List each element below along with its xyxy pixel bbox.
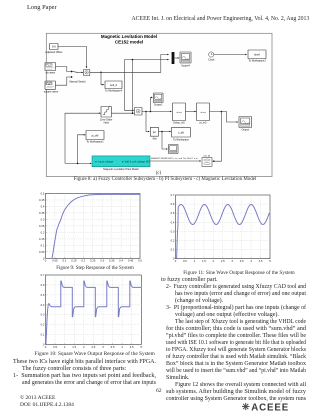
wire: branch down to Scope5 bbox=[162, 132, 168, 150]
gateway block 2 bbox=[197, 103, 210, 121]
ACEEE logo bbox=[241, 401, 295, 413]
wire: clock to To Workspace3 bbox=[214, 54, 247, 56]
svg-text:Hold: Hold bbox=[104, 121, 110, 124]
sum block sum2 bbox=[135, 108, 143, 116]
svg-text:3: 3 bbox=[102, 345, 104, 349]
svg-text:0.3: 0.3 bbox=[41, 217, 45, 221]
svg-text:1.5: 1.5 bbox=[202, 259, 206, 263]
scope block Scope4 bbox=[180, 52, 191, 63]
svg-text:0.2: 0.2 bbox=[41, 323, 45, 327]
svg-text:To Workspace1: To Workspace1 bbox=[86, 140, 104, 143]
wire: mux to Scope4 bbox=[174, 57, 179, 59]
svg-text:0.1: 0.1 bbox=[41, 243, 45, 247]
svg-text:0.25: 0.25 bbox=[90, 259, 96, 263]
svg-text:0.7: 0.7 bbox=[41, 273, 45, 277]
wire: plant out to RT block bbox=[150, 160, 201, 162]
svg-text:0.2: 0.2 bbox=[81, 259, 85, 263]
svg-text:0.35: 0.35 bbox=[109, 259, 115, 263]
svg-text:0.1: 0.1 bbox=[62, 259, 66, 263]
svg-text:2: 2 bbox=[83, 345, 85, 349]
To Workspace3 block "timef" bbox=[248, 50, 266, 59]
svg-text:0.45: 0.45 bbox=[39, 198, 45, 202]
figure 11 sine-output curve bbox=[177, 205, 270, 259]
svg-text:CE152 model: CE152 model bbox=[115, 40, 143, 45]
svg-text:3: 3 bbox=[231, 259, 233, 263]
wire: vertical to sum2 input 1 bbox=[125, 60, 134, 111]
svg-text:0.7: 0.7 bbox=[171, 193, 175, 197]
svg-text:0.3: 0.3 bbox=[171, 229, 175, 233]
mux bar bbox=[172, 52, 175, 64]
svg-text:3.5: 3.5 bbox=[240, 259, 244, 263]
wire: vertical link x132.5 bbox=[132, 60, 134, 114]
svg-text:xl out: xl out bbox=[201, 111, 206, 114]
svg-text:0.5: 0.5 bbox=[138, 259, 142, 263]
wire: branch up to Scope1 bbox=[150, 97, 152, 111]
wire: branch up to pi_vhf bbox=[78, 135, 86, 164]
svg-text:0: 0 bbox=[45, 345, 47, 349]
svg-text:3.5: 3.5 bbox=[111, 345, 115, 349]
svg-text:0.4: 0.4 bbox=[41, 303, 45, 307]
wire: sum2 to gateway1 bbox=[142, 111, 172, 113]
svg-text:Delay_In0: Delay_In0 bbox=[173, 121, 185, 124]
svg-text:4.5: 4.5 bbox=[259, 259, 263, 263]
figure 9 axes box bbox=[46, 194, 141, 259]
figure 10 axes box bbox=[46, 275, 142, 345]
svg-text:► Input voltage: ► Input voltage bbox=[95, 159, 114, 163]
svg-text:5: 5 bbox=[269, 259, 271, 263]
svg-text:4: 4 bbox=[250, 259, 252, 263]
svg-text:0.1: 0.1 bbox=[41, 333, 45, 337]
svg-text:To Workspace4: To Workspace4 bbox=[105, 89, 123, 92]
scope block Output bbox=[239, 117, 252, 128]
svg-text:2: 2 bbox=[213, 259, 215, 263]
zero-order hold block bbox=[101, 107, 112, 118]
wire: plant-input net down-left and to ZOH bbox=[65, 113, 101, 163]
manual switch bbox=[71, 71, 73, 73]
svg-text:0.5: 0.5 bbox=[41, 293, 45, 297]
svg-text:Scope4: Scope4 bbox=[181, 64, 190, 67]
scope block Scope1 bbox=[154, 93, 164, 103]
wire: gateway loop down into RT block right side bbox=[213, 112, 222, 162]
gateway block 1 bbox=[173, 103, 186, 121]
figure 11 axes box bbox=[176, 195, 271, 259]
svg-text:timef: timef bbox=[254, 52, 260, 56]
figure 10 square-wave curve bbox=[46, 281, 141, 345]
svg-text:setf_d: setf_d bbox=[110, 83, 118, 87]
svg-text:0-0: 0-0 bbox=[52, 45, 56, 49]
svg-text:5: 5 bbox=[141, 345, 143, 349]
svg-text:0.4: 0.4 bbox=[171, 220, 175, 224]
svg-text:square wave: square wave bbox=[44, 91, 59, 94]
svg-text:0.2: 0.2 bbox=[171, 239, 175, 243]
svg-text:4.5: 4.5 bbox=[130, 345, 134, 349]
svg-text:0.35: 0.35 bbox=[39, 211, 45, 215]
svg-text:0: 0 bbox=[175, 259, 177, 263]
svg-text:|u|: |u| bbox=[153, 130, 156, 134]
clock block bbox=[209, 52, 214, 57]
svg-text:Clock: Clock bbox=[208, 59, 215, 62]
wire: branch down to Abs bbox=[146, 112, 150, 132]
svg-text:0.1: 0.1 bbox=[171, 248, 175, 252]
signal generator "square wave" bbox=[45, 81, 56, 89]
svg-text:To Workspace3: To Workspace3 bbox=[248, 60, 266, 63]
wire: zoh out to sum2 input 2 bbox=[112, 112, 134, 114]
sum block sum1 bbox=[84, 70, 90, 76]
svg-text:0.15: 0.15 bbox=[39, 237, 45, 241]
svg-text:2.5: 2.5 bbox=[221, 259, 225, 263]
wire: gateway2 to Output scope bbox=[210, 112, 239, 123]
svg-text:0.45: 0.45 bbox=[128, 259, 134, 263]
svg-text:Adjusted Offset: Adjusted Offset bbox=[45, 51, 62, 54]
svg-text:0.05: 0.05 bbox=[39, 250, 45, 254]
wire: sum1 out to mux input 1 bbox=[90, 55, 169, 73]
signal generator "sin wave" bbox=[45, 63, 56, 71]
svg-text:Abs: Abs bbox=[152, 137, 157, 140]
svg-text:1: 1 bbox=[64, 345, 66, 349]
wire: constant to sum1 top bbox=[58, 47, 87, 69]
svg-text:0.15: 0.15 bbox=[71, 259, 77, 263]
svg-text:pi_In0: pi_In0 bbox=[200, 121, 207, 124]
svg-text:4: 4 bbox=[121, 345, 123, 349]
svg-text:ACEEE: ACEEE bbox=[251, 402, 289, 413]
svg-text:0.5: 0.5 bbox=[53, 345, 57, 349]
wire: gateway1 to gateway2 bbox=[186, 111, 197, 113]
svg-text:0.5: 0.5 bbox=[41, 192, 45, 196]
svg-text:0.11 dll: 0.11 dll bbox=[204, 155, 211, 157]
svg-text:► ball & coil voltage MU: ► ball & coil voltage MU bbox=[122, 159, 150, 163]
figure 9 step-response curve bbox=[52, 194, 140, 258]
svg-text:s_dft: s_dft bbox=[178, 131, 184, 135]
svg-text:1.5: 1.5 bbox=[72, 345, 76, 349]
RT adapter block bbox=[202, 158, 212, 167]
svg-text:MEASBT WINMOSNT v.r.u. and The: MEASBT WINMOSNT v.r.u. and The Wolf T u … bbox=[151, 157, 198, 160]
svg-text:sin wave: sin wave bbox=[45, 72, 55, 75]
constant block "Adjusted Offset" bbox=[50, 44, 59, 50]
wire: sin gen to switch upper input bbox=[56, 67, 71, 72]
wire: square gen to switch lower input bbox=[56, 77, 71, 85]
svg-text:0.5: 0.5 bbox=[171, 211, 175, 215]
svg-text:0.6: 0.6 bbox=[41, 283, 45, 287]
svg-text:0.5: 0.5 bbox=[183, 259, 187, 263]
svg-text:0.3: 0.3 bbox=[41, 313, 45, 317]
svg-text:0.2: 0.2 bbox=[41, 230, 45, 234]
svg-text:Scope1: Scope1 bbox=[154, 104, 163, 107]
svg-text:Magnetic Levitation Model: Magnetic Levitation Model bbox=[101, 34, 157, 39]
svg-text:0.4: 0.4 bbox=[41, 205, 45, 209]
svg-text:0.3: 0.3 bbox=[100, 259, 104, 263]
abs block bbox=[150, 127, 158, 136]
wire: net to plant input bbox=[65, 162, 92, 164]
svg-text:0: 0 bbox=[45, 259, 47, 263]
svg-text:Manual Switch: Manual Switch bbox=[69, 80, 86, 83]
svg-text:2.5: 2.5 bbox=[91, 345, 95, 349]
wire: branch down to To Workspace4 bbox=[101, 72, 104, 84]
svg-text:0.25: 0.25 bbox=[39, 224, 45, 228]
model frame bbox=[46, 33, 272, 176]
svg-text:xl out: xl out bbox=[177, 111, 182, 114]
svg-text:0.4: 0.4 bbox=[119, 259, 123, 263]
svg-text:pi_vhf: pi_vhf bbox=[92, 133, 99, 137]
svg-text:0.05: 0.05 bbox=[52, 259, 58, 263]
svg-text:Output: Output bbox=[241, 129, 249, 132]
svg-text:0.6: 0.6 bbox=[171, 202, 175, 206]
To Workspace4 block "setf_d" bbox=[105, 81, 122, 89]
wire: switch to sum1 bbox=[78, 71, 83, 73]
To Workspace block "ls_dft" bbox=[172, 127, 191, 137]
scope block Scope5 bbox=[169, 145, 179, 154]
wire: lower mux input (long) bbox=[125, 59, 169, 61]
wire: abs to To Workspace bbox=[159, 131, 171, 133]
svg-text:1: 1 bbox=[194, 259, 196, 263]
To Workspace1 block "pi_vhf" bbox=[86, 131, 104, 140]
svg-text:To Workspace: To Workspace bbox=[173, 138, 189, 141]
magnetic levitation plant block (cyan) bbox=[92, 156, 150, 167]
